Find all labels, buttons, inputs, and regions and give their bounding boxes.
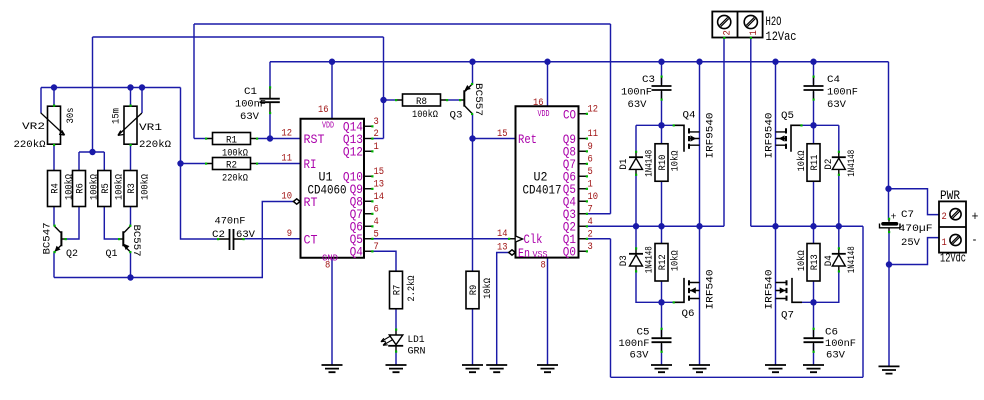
diode D3 1N4148 — [618, 246, 656, 273]
pin name Q8 U2 — [563, 146, 576, 160]
pin stub Q1 U2 — [579, 238, 589, 240]
svg-text:6: 6 — [374, 203, 379, 215]
resistor R8 100k — [395, 94, 448, 121]
wire net B horizontal — [751, 225, 863, 227]
wire R8 left — [384, 99, 397, 101]
pin name Q4 U2 — [563, 196, 576, 210]
pin number 3 U2 — [588, 241, 593, 253]
svg-text:En: En — [518, 247, 530, 261]
wire second rail (R5/R6 net) — [93, 36, 384, 38]
svg-text:PWR: PWR — [940, 189, 960, 203]
wire R6-R5 top link — [79, 151, 104, 153]
pin stub Q8 U1 — [364, 200, 374, 202]
pin number 9 U2 — [588, 141, 593, 153]
pin name RI U1 — [304, 158, 317, 172]
svg-text:220kΩ: 220kΩ — [222, 173, 248, 185]
wire U2 VDD — [547, 62, 549, 107]
wire U2.Q3 link — [587, 213, 611, 215]
wire Q4 gate wire — [636, 124, 673, 126]
svg-text:220kΩ: 220kΩ — [14, 139, 46, 151]
svg-text:CT: CT — [304, 233, 318, 247]
svg-text:63V: 63V — [628, 99, 648, 111]
transistor Q6 IRF540 — [673, 270, 717, 321]
capacitor C6 100nF — [804, 328, 824, 353]
svg-text:C4: C4 — [827, 74, 840, 86]
wire C7 minus — [888, 232, 890, 265]
svg-text:Q4: Q4 — [350, 246, 363, 260]
transistor Q2 BC547 — [42, 223, 79, 261]
svg-text:15: 15 — [374, 166, 385, 178]
junction R5/R6 node — [89, 149, 95, 155]
pin stub Q0 U2 — [579, 250, 589, 252]
pin name Q3 U2 — [563, 208, 576, 222]
ground C6 — [803, 365, 824, 372]
junction Q3/Rst — [469, 135, 475, 141]
pin number 16 U1 — [318, 104, 329, 116]
resistor R4 100k — [48, 171, 76, 207]
wire VR1 wiper drop — [141, 88, 143, 114]
pin number 4 U2 — [588, 216, 593, 228]
svg-text:U2: U2 — [534, 171, 548, 185]
wire R12 top lead — [661, 226, 663, 243]
pin number 1 U1 — [374, 141, 379, 153]
pin name Q6 U1 — [350, 221, 363, 235]
pin stub Q13 U1 — [364, 138, 374, 140]
LED LD1 GRN — [381, 329, 426, 358]
wire R9 to ground — [472, 309, 474, 365]
pin number 13 U1 — [374, 178, 385, 190]
svg-text:Q4: Q4 — [683, 110, 696, 122]
svg-text:RI: RI — [304, 158, 317, 172]
pin number 14 U2 — [497, 228, 508, 240]
resistor R1 100k — [205, 133, 258, 160]
wire C1 bottom to RST — [269, 113, 271, 139]
wire En to ground — [497, 253, 510, 366]
svg-text:1: 1 — [748, 30, 760, 35]
svg-text:30s: 30s — [65, 108, 77, 124]
wire U1 VDD — [331, 62, 333, 119]
svg-text:C2: C2 — [212, 229, 225, 241]
pin number 12 U2 — [588, 104, 599, 116]
wire R8 right to Q3 base — [447, 99, 461, 101]
pin number 14 U1 — [374, 191, 385, 203]
svg-text:CD4017: CD4017 — [523, 184, 562, 198]
pin number 10 U1 — [281, 191, 292, 203]
svg-text:R2: R2 — [226, 159, 237, 171]
pin stub Q5 U1 — [364, 238, 374, 240]
wire R6 top lead — [78, 152, 80, 171]
junction gate net A2 R12 — [658, 299, 664, 305]
wire R7 to LED — [395, 309, 397, 330]
svg-text:9: 9 — [287, 228, 292, 240]
resistor R11 10k — [796, 144, 821, 182]
svg-text:BC547: BC547 — [42, 223, 54, 255]
svg-text:C6: C6 — [825, 327, 838, 339]
pin number 3 U1 — [374, 116, 379, 128]
svg-text:RT: RT — [304, 196, 318, 210]
pin name Q12 U1 — [343, 146, 363, 160]
wire R1 right to RST — [257, 138, 301, 140]
junction gate net B1 R11 — [810, 122, 816, 128]
resistor R12 10k — [655, 244, 682, 282]
wire C6 bottom lead — [813, 344, 815, 365]
svg-text:10kΩ: 10kΩ — [796, 151, 808, 172]
svg-text:2: 2 — [722, 30, 734, 35]
wire R13 bottom lead — [813, 281, 815, 302]
capacitor C3 100nF — [652, 76, 672, 101]
junction Q5 source rail — [772, 59, 778, 65]
wire to PWR plus — [889, 189, 940, 215]
junction net A R10/R12 — [658, 223, 664, 229]
junction net B D2/D4 — [836, 223, 842, 229]
svg-text:Clk: Clk — [524, 233, 543, 247]
wire LED to ground — [395, 351, 397, 365]
svg-text:12Vac: 12Vac — [766, 30, 797, 44]
ground U1 GND — [322, 365, 343, 372]
pin name Q2 U2 — [563, 221, 576, 235]
svg-text:7: 7 — [588, 203, 593, 215]
svg-text:8: 8 — [541, 260, 546, 272]
svg-text:Q5: Q5 — [781, 110, 794, 122]
wire VR rail — [41, 87, 181, 89]
svg-text:100nF: 100nF — [235, 99, 266, 111]
svg-text:Q0: Q0 — [563, 246, 576, 260]
RT inversion bubble U1 — [293, 199, 300, 204]
junction net B drains — [772, 223, 778, 229]
wire C6 top lead — [813, 302, 815, 336]
svg-text:15: 15 — [497, 128, 508, 140]
wire VR2 wiper drop — [40, 88, 42, 114]
potentiometer VR2 220k — [14, 105, 78, 152]
svg-text:1N4148: 1N4148 — [846, 246, 858, 273]
svg-text:5: 5 — [374, 228, 379, 240]
pin name Q5 U2 — [563, 183, 576, 197]
En inversion bubble U2 — [509, 250, 516, 255]
svg-text:63V: 63V — [826, 350, 846, 362]
label C4 — [827, 74, 858, 111]
svg-text:5: 5 — [588, 166, 593, 178]
junction R2 tap — [177, 160, 183, 166]
svg-text:63V: 63V — [236, 229, 256, 241]
svg-text:R4: R4 — [50, 183, 62, 194]
pin number 10 U2 — [588, 191, 599, 203]
ground Q6 source — [689, 365, 710, 372]
svg-text:10kΩ: 10kΩ — [482, 278, 494, 299]
wire U1.Q5 to U2 Clk — [372, 238, 509, 240]
svg-text:C1: C1 — [244, 86, 257, 98]
svg-text:25V: 25V — [901, 237, 921, 249]
clock triangle U2 — [508, 236, 523, 242]
pin stub Q9 U2 — [579, 138, 589, 140]
capacitor C2 470nF — [212, 216, 256, 251]
resistor R5 100k — [98, 171, 126, 207]
pin name Q5 U1 — [350, 233, 363, 247]
junction Q3 emitter rail — [469, 59, 475, 65]
wire net A to H2O pin2 — [723, 38, 725, 227]
svg-text:-: - — [972, 234, 978, 248]
pin name Q7 U2 — [563, 158, 576, 172]
transistor Q5 IRF9540 — [764, 110, 803, 159]
wire +12V rail — [270, 61, 889, 63]
wire R5/R6 net vertical — [92, 37, 94, 152]
svg-text:470nF: 470nF — [215, 216, 246, 228]
label U1 — [319, 171, 333, 185]
svg-text:10: 10 — [281, 191, 292, 203]
diode D4 1N4148 — [823, 246, 858, 273]
junction VR1 top — [127, 84, 133, 90]
svg-text:2: 2 — [588, 228, 593, 240]
junction emitter rail — [127, 274, 133, 280]
wire rail to C2 — [181, 88, 219, 240]
svg-text:Q3: Q3 — [450, 110, 463, 122]
pin number 7 U1 — [374, 241, 379, 253]
pin number 2 U2 — [588, 228, 593, 240]
junction PWR plus tap — [885, 186, 891, 192]
pin name CT U1 — [304, 233, 318, 247]
svg-text:100nF: 100nF — [621, 87, 652, 99]
svg-text:10kΩ: 10kΩ — [670, 250, 682, 271]
svg-text:1: 1 — [942, 237, 947, 249]
wire C3 to Q4 gate net — [661, 92, 663, 126]
svg-text:IRF9540: IRF9540 — [705, 113, 717, 159]
junction C7 minus node — [886, 261, 892, 267]
pin number 13 U2 — [497, 242, 508, 254]
pin stub Q8 U2 — [579, 150, 589, 152]
pin number 15 U2 — [497, 128, 508, 140]
svg-text:R9: R9 — [468, 285, 480, 296]
pin number 6 U1 — [374, 203, 379, 215]
op-amp U2 CD4017 body — [516, 106, 579, 257]
ground En — [486, 365, 507, 372]
pin name Q13 U1 — [343, 133, 363, 147]
wire Q3 emitter — [472, 62, 474, 84]
wire net B vertical right — [862, 226, 864, 377]
svg-text:Q7: Q7 — [781, 310, 794, 322]
connector H2O 12Vac — [712, 12, 796, 45]
wire R2 right to RI — [257, 163, 301, 165]
wire Q3 collector to R9 — [472, 114, 474, 271]
wire PWR minus — [889, 238, 939, 265]
capacitor C1 100nF — [235, 86, 280, 123]
resistor R6 100k — [73, 171, 101, 207]
pin number 9 U1 — [287, 228, 292, 240]
svg-text:4: 4 — [588, 216, 593, 228]
svg-text:470µF: 470µF — [899, 223, 933, 235]
svg-text:VDD: VDD — [538, 109, 550, 119]
wire R2 left — [181, 163, 207, 165]
svg-text:1: 1 — [588, 178, 593, 190]
svg-text:+: + — [891, 212, 897, 224]
svg-text:100nF: 100nF — [827, 87, 858, 99]
pin stub Q4 U1 — [364, 250, 374, 252]
pin number 2 U1 — [374, 128, 379, 140]
wire +12V to C7 — [888, 62, 890, 220]
wire R5 top lead — [103, 152, 105, 171]
junction C3 rail — [658, 59, 664, 65]
diode D1 1N4148 — [618, 150, 656, 177]
wire Q3 to U2 Rst — [473, 138, 516, 140]
junction C4 rail — [810, 59, 816, 65]
svg-text:13: 13 — [497, 242, 508, 254]
pin number 4 U1 — [374, 216, 379, 228]
wire net B bottom rail — [611, 376, 864, 378]
junction net B R11/R13 — [810, 223, 816, 229]
svg-text:R7: R7 — [392, 285, 404, 296]
wire Q5 gate wire — [791, 124, 839, 126]
resistor R9 10k — [466, 271, 494, 309]
svg-text:GRN: GRN — [408, 346, 426, 358]
capacitor C7 470uF electrolytic — [880, 209, 933, 249]
ground Q7 source — [765, 365, 786, 372]
wire R6 to Q2 base — [65, 207, 79, 240]
pin name Q4 U1 — [350, 246, 363, 260]
svg-text:11: 11 — [281, 153, 292, 165]
wire Q1 emitter drop — [130, 252, 132, 278]
svg-text:D3: D3 — [618, 255, 630, 266]
pin number 1 U2 — [588, 178, 593, 190]
svg-text:R6: R6 — [75, 183, 87, 194]
junction VR1 wiper — [139, 84, 145, 90]
wire Q6 drain vertical — [699, 226, 701, 365]
pin name VDD U1 — [322, 121, 334, 131]
label C5 — [619, 327, 650, 362]
wire R10 bottom lead — [661, 181, 663, 226]
pin name En U2 — [518, 247, 530, 261]
svg-text:15m: 15m — [111, 108, 123, 124]
wire R5 to Q1 base — [104, 207, 119, 240]
pin name CO U2 — [563, 108, 576, 122]
pin stub Q12 U1 — [364, 150, 374, 152]
wire Q13 net vertical — [383, 37, 385, 139]
transistor Q7 IRF540 — [764, 270, 803, 322]
pin name Q8 U1 — [350, 196, 363, 210]
wire C3 top lead — [661, 62, 663, 85]
svg-text:R11: R11 — [809, 155, 821, 171]
pin name Q10 U1 — [343, 171, 363, 185]
label C3 — [621, 74, 655, 111]
ground power supply — [879, 366, 900, 373]
svg-text:2.2kΩ: 2.2kΩ — [406, 276, 418, 302]
transistor Q1 BC557 — [106, 225, 142, 261]
ground R9 — [462, 365, 483, 372]
pin name Q14 U1 — [343, 121, 363, 135]
wire C5 top lead — [661, 302, 663, 336]
wire U2 VSS to ground — [547, 258, 549, 365]
pin number 15 U1 — [374, 166, 385, 178]
svg-text:10: 10 — [588, 191, 599, 203]
pin name Q0 U2 — [563, 246, 576, 260]
op-amp U1 CD4060 body — [301, 119, 365, 258]
wire Q4 source-drain vertical — [699, 62, 701, 227]
wire D1 top lead — [635, 125, 637, 152]
wire D2 bottom lead — [838, 174, 840, 226]
svg-text:R5: R5 — [100, 183, 112, 194]
wire top rail (R1 to U2.Q3 net) — [194, 23, 611, 25]
svg-text:100nF: 100nF — [619, 338, 650, 350]
wire U1.Q4 to R7 — [372, 251, 396, 271]
svg-text:RST: RST — [304, 133, 325, 147]
svg-text:VR1: VR1 — [139, 122, 162, 134]
svg-text:Q2: Q2 — [66, 248, 78, 260]
wire VR1 top lead — [130, 88, 132, 107]
pin stub Q9 U1 — [364, 188, 374, 190]
svg-text:1N4148: 1N4148 — [644, 150, 656, 177]
connector PWR 12Vdc — [939, 189, 979, 266]
pin number 8 U2 — [541, 260, 546, 272]
svg-text:12: 12 — [281, 128, 292, 140]
pin stub Q4 U2 — [579, 200, 589, 202]
svg-text:IRF540: IRF540 — [705, 270, 717, 310]
svg-text:D2: D2 — [823, 159, 835, 170]
svg-text:3: 3 — [588, 241, 593, 253]
wire U2.Q1 link — [587, 238, 611, 240]
wire Q7 drain vertical — [775, 226, 777, 365]
svg-text:R13: R13 — [809, 254, 821, 270]
wire C2 right to CT — [243, 238, 301, 240]
pin name VSS U2 — [533, 250, 548, 260]
ground LED — [386, 365, 407, 372]
pin number 11 U2 — [588, 128, 599, 140]
pin stub Q3 U2 — [579, 213, 589, 215]
wire net B vertical left — [610, 239, 612, 378]
svg-text:13: 13 — [374, 178, 385, 190]
svg-text:BC557: BC557 — [130, 225, 142, 257]
junction C1/RST — [267, 135, 273, 141]
svg-text:7: 7 — [374, 241, 379, 253]
resistor R13 10k — [796, 244, 821, 282]
wire VR2 to R4 — [53, 144, 55, 170]
svg-text:63V: 63V — [630, 350, 650, 362]
svg-text:11: 11 — [588, 128, 599, 140]
svg-text:12Vdc: 12Vdc — [940, 252, 966, 266]
pin stub Q7 U1 — [364, 213, 374, 215]
label CD4060 — [308, 184, 347, 198]
wire U1 GND — [331, 258, 333, 365]
wire R11 top lead — [813, 125, 815, 143]
wire VR1 to R3 — [130, 144, 132, 170]
svg-text:100kΩ: 100kΩ — [140, 174, 152, 200]
pin number 5 U2 — [588, 166, 593, 178]
svg-text:R12: R12 — [657, 254, 669, 270]
pin name Q9 U1 — [350, 183, 363, 197]
junction VR2 top — [51, 84, 57, 90]
label CD4017 — [523, 184, 562, 198]
wire R1 left — [194, 138, 206, 140]
ground U2 VSS — [537, 365, 558, 372]
pin name RST U1 — [304, 133, 325, 147]
wire D3 top lead — [635, 226, 637, 249]
junction gate net B2 R13 — [810, 299, 816, 305]
wire D4 top lead — [838, 226, 840, 249]
transistor Q3 BC557 — [450, 83, 485, 122]
pin name Clk U2 — [524, 233, 543, 247]
svg-text:Q1: Q1 — [106, 248, 118, 260]
svg-text:R1: R1 — [226, 134, 237, 146]
svg-text:100kΩ: 100kΩ — [412, 109, 438, 121]
wire R1 net vertical — [193, 24, 195, 139]
wire emitter rail to RT — [54, 202, 293, 278]
svg-text:IRF540: IRF540 — [764, 270, 776, 310]
svg-text:LD1: LD1 — [408, 334, 425, 346]
wire D3 bottom lead — [636, 271, 673, 302]
resistor R7 2.2k — [390, 271, 419, 309]
svg-text:H2O: H2O — [766, 15, 782, 29]
svg-text:10kΩ: 10kΩ — [670, 151, 682, 172]
pin name Q7 U1 — [350, 208, 363, 222]
svg-text:Ret: Ret — [518, 133, 537, 147]
wire R10 top lead — [661, 125, 663, 143]
wire C7 node to ground — [888, 265, 890, 367]
